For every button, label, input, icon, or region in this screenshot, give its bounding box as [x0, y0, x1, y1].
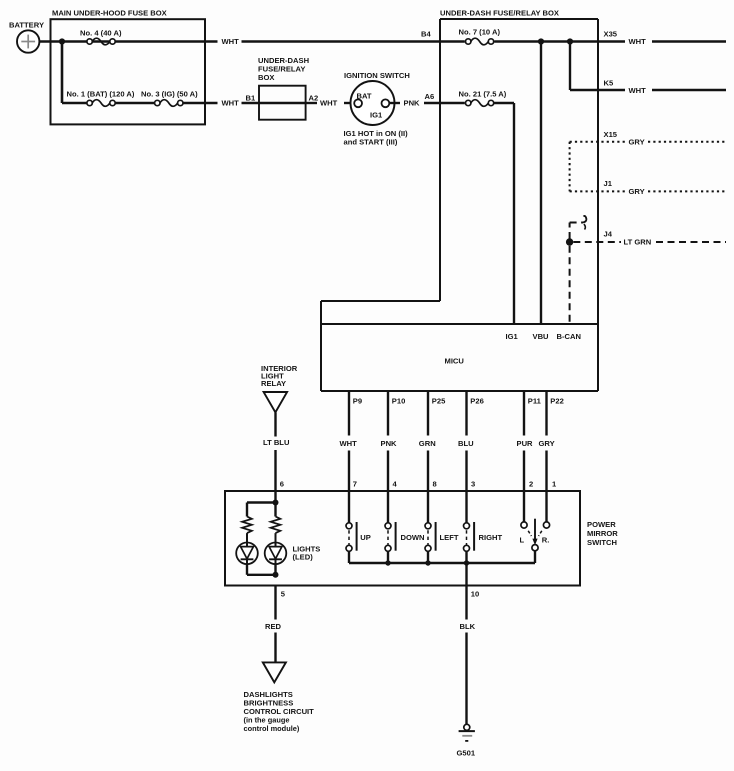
svg-text:LT GRN: LT GRN [624, 238, 652, 247]
label GRY (J1) [629, 187, 645, 196]
pin 4 [393, 479, 398, 488]
svg-text:P25: P25 [432, 396, 446, 405]
svg-text:P9: P9 [353, 396, 362, 405]
wire: MICU P22 to switch pin 1, GRY [545, 391, 547, 491]
connector B1 [246, 93, 256, 102]
wire: B-CAN dashed to MICU [569, 246, 571, 324]
node: bus junction (DOWN) [385, 560, 390, 565]
label IG1 (MICU pin) [506, 332, 519, 341]
node: bus junction (pin 10) [464, 560, 469, 565]
connector A2 [309, 93, 319, 102]
wire: switch common bus [349, 562, 535, 564]
wire: MICU P11 to switch pin 2, PUR [523, 391, 525, 491]
node: pin 6 junction [273, 500, 279, 506]
svg-text:LT BLU: LT BLU [263, 438, 290, 447]
connector X15 [604, 130, 618, 139]
label No. 21 (7.5 A) [459, 89, 507, 98]
label WHT (P9) [340, 439, 358, 448]
svg-text:G501: G501 [457, 749, 476, 758]
MICU box [321, 324, 598, 365]
label LT BLU [263, 438, 290, 447]
node: battery junction [59, 38, 65, 44]
svg-text:P10: P10 [392, 396, 406, 405]
fuse No.3 [155, 100, 183, 107]
svg-text:7: 7 [353, 479, 357, 488]
label P9 [353, 396, 362, 405]
wire: relay to switch pin 6, LT BLU [274, 412, 276, 502]
svg-text:GRY: GRY [629, 137, 645, 146]
wire: fuse 21 to MICU IG1 [494, 103, 514, 324]
svg-text:No. 3 (IG) (50 A): No. 3 (IG) (50 A) [141, 90, 198, 99]
dashlights brightness control (off-page triangle) [263, 662, 286, 682]
svg-text:MIRROR: MIRROR [587, 529, 618, 538]
svg-text:IG1: IG1 [506, 332, 519, 341]
wire: battery to top row, WHT hot at all times [39, 40, 726, 42]
svg-text:SWITCH: SWITCH [587, 538, 617, 547]
pin 10 [471, 590, 479, 599]
svg-text:and START (III): and START (III) [344, 138, 398, 147]
label RED [265, 622, 282, 631]
note IG1 HOT [344, 129, 409, 147]
svg-text:K5: K5 [604, 79, 614, 88]
svg-text:RIGHT: RIGHT [479, 533, 503, 542]
label VBU [533, 332, 550, 341]
svg-text:No. 4 (40 A): No. 4 (40 A) [80, 28, 122, 37]
resistor (left dimmer) [242, 517, 252, 534]
svg-text:UNDER-DASH FUSE/RELAY BOX: UNDER-DASH FUSE/RELAY BOX [440, 8, 559, 17]
label P22 [550, 396, 564, 405]
svg-text:(LED): (LED) [293, 553, 314, 562]
pin 6 [280, 479, 284, 488]
label P11 [528, 396, 542, 405]
label P25 [432, 396, 446, 405]
node: K5 junction [567, 38, 573, 44]
switch DOWN [385, 491, 425, 563]
wire: junction down to No.1 fuse row [61, 42, 64, 104]
wire: LEDs to pin 5 [247, 564, 276, 575]
svg-text:WHT: WHT [340, 439, 358, 448]
wire: J1 GRY (dotted) [570, 190, 726, 192]
wire: ignition IG1 out, PNK [389, 102, 465, 104]
label WHT (before ignition switch) [320, 99, 338, 108]
svg-text:RED: RED [265, 622, 282, 631]
under-dash fuse/relay box (pass-through) [258, 56, 309, 120]
svg-text:WHT: WHT [320, 99, 338, 108]
pin 8 [433, 479, 437, 488]
svg-text:MICU: MICU [445, 356, 465, 365]
label No. 4 (40 A) [80, 28, 122, 37]
wire: MICU P9 to switch pin 7, WHT [348, 391, 350, 491]
svg-text:WHT: WHT [222, 99, 240, 108]
fuse No.1 [87, 100, 115, 107]
switch L/R selector [520, 491, 550, 563]
svg-text:P22: P22 [550, 396, 564, 405]
interior light relay (off-page triangle) [261, 364, 298, 412]
wire: J4 stub with pigtail [570, 216, 587, 239]
svg-text:No. 21 (7.5 A): No. 21 (7.5 A) [459, 89, 507, 98]
pin 3 [471, 479, 475, 488]
note: dashlights brightness control circuit [244, 690, 315, 733]
wire: K5 branch WHT [570, 42, 726, 91]
label LIGHTS (LED) [293, 545, 321, 562]
fuse No.7 [466, 38, 494, 45]
svg-text:POWER: POWER [587, 520, 616, 529]
fuse No.4 [87, 38, 115, 45]
svg-text:P11: P11 [528, 396, 542, 405]
LED (right light) [265, 533, 287, 564]
label GRY (P22) [539, 439, 555, 448]
svg-text:X35: X35 [604, 29, 618, 38]
label GRN (P25) [419, 439, 436, 448]
svg-text:10: 10 [471, 590, 479, 599]
svg-text:3: 3 [471, 479, 475, 488]
battery [9, 20, 44, 52]
wire: X15 GRY (dotted) [570, 142, 726, 192]
label GRY (X15) [629, 137, 645, 146]
label LT GRN [624, 238, 652, 247]
svg-text:PNK: PNK [381, 439, 398, 448]
switch UP [346, 491, 371, 563]
label PNK [404, 99, 421, 108]
wire: pin 10 BLK to ground [465, 563, 467, 724]
svg-text:X15: X15 [604, 130, 618, 139]
label PNK (P10) [381, 439, 398, 448]
svg-text:B-CAN: B-CAN [557, 332, 581, 341]
svg-text:B1: B1 [246, 93, 256, 102]
pin 7 [353, 479, 357, 488]
fuse No.21 [466, 100, 494, 107]
label WHT (K5 out) [629, 86, 647, 95]
wire: pin 5 RED [274, 586, 276, 663]
node: LED bottom junction [273, 572, 279, 578]
svg-text:DOWN: DOWN [401, 533, 425, 542]
LED (left light) [236, 533, 258, 564]
label BLK [460, 622, 476, 631]
svg-text:RELAY: RELAY [261, 379, 286, 388]
label BLU (P26) [458, 439, 474, 448]
pin 5 [281, 590, 286, 599]
svg-text:VBU: VBU [533, 332, 550, 341]
svg-text:LEFT: LEFT [440, 533, 459, 542]
connector A6 [425, 92, 435, 101]
svg-text:WHT: WHT [629, 86, 647, 95]
pin 1 [552, 479, 557, 488]
svg-text:BOX: BOX [258, 73, 274, 82]
node: J4 junction [566, 238, 573, 245]
svg-text:GRY: GRY [539, 439, 555, 448]
svg-text:BAT: BAT [357, 91, 372, 100]
connector X35 [604, 29, 618, 38]
power mirror switch box [225, 491, 618, 586]
label WHT (X35 out) [629, 37, 647, 46]
label No. 3 (IG) (50 A) [141, 90, 198, 99]
wire: MICU P25 to switch pin 8, GRN [427, 391, 429, 491]
pin 2 [529, 479, 533, 488]
svg-text:A2: A2 [309, 93, 319, 102]
switch LEFT [425, 491, 459, 563]
svg-text:P26: P26 [470, 396, 484, 405]
wire: branch to resistors [247, 503, 276, 517]
label WHT (top wire, left) [222, 37, 240, 46]
svg-text:BLK: BLK [460, 622, 476, 631]
svg-text:No. 7 (10 A): No. 7 (10 A) [459, 27, 501, 36]
node: bus junction (LEFT) [425, 560, 430, 565]
wire: VBU to MICU [540, 42, 542, 325]
ignition switch [344, 71, 410, 125]
node: X35/VBU junction [538, 38, 544, 44]
svg-text:WHT: WHT [222, 37, 240, 46]
wire: MICU P10 to switch pin 4, PNK [387, 391, 389, 491]
label No. 7 (10 A) [459, 27, 501, 36]
svg-text:UP: UP [360, 533, 371, 542]
svg-text:A6: A6 [425, 92, 435, 101]
connector K5 [604, 79, 614, 88]
svg-text:IGNITION SWITCH: IGNITION SWITCH [344, 71, 410, 80]
svg-text:MAIN UNDER-HOOD FUSE BOX: MAIN UNDER-HOOD FUSE BOX [52, 9, 167, 18]
svg-text:GRY: GRY [629, 187, 645, 196]
under-dash fuse/relay box outline [321, 8, 598, 391]
main under-hood fuse box [51, 9, 206, 125]
svg-text:GRN: GRN [419, 439, 436, 448]
svg-text:PUR: PUR [517, 439, 534, 448]
label No. 1 (BAT) (120 A) [67, 90, 135, 99]
svg-text:R.: R. [542, 535, 550, 544]
label P26 [470, 396, 484, 405]
svg-text:PNK: PNK [404, 99, 421, 108]
svg-text:control module): control module) [244, 724, 300, 733]
svg-text:BATTERY: BATTERY [9, 20, 44, 29]
svg-text:L: L [520, 535, 525, 544]
wire: J4 LT GRN (dashed) [573, 241, 726, 243]
resistor (right dimmer) [271, 517, 281, 534]
switch RIGHT [464, 491, 503, 563]
svg-text:J4: J4 [604, 229, 613, 238]
svg-text:WHT: WHT [629, 37, 647, 46]
connector B4 [421, 29, 431, 38]
wire: lower row WHT through fuses No.1 and No.3 [62, 102, 354, 104]
label B-CAN [557, 332, 581, 341]
ground G501 [457, 724, 476, 757]
wire: MICU P26 to switch pin 3, BLU [465, 391, 467, 491]
svg-text:6: 6 [280, 479, 284, 488]
svg-text:B4: B4 [421, 29, 431, 38]
label P10 [392, 396, 406, 405]
label PUR (P11) [517, 439, 534, 448]
svg-text:8: 8 [433, 479, 437, 488]
svg-text:BLU: BLU [458, 439, 474, 448]
svg-text:No. 1 (BAT) (120 A): No. 1 (BAT) (120 A) [67, 90, 135, 99]
svg-text:IG1: IG1 [370, 111, 383, 120]
svg-text:J1: J1 [604, 179, 613, 188]
connector J1 [604, 179, 613, 188]
connector J4 [604, 229, 613, 238]
svg-text:2: 2 [529, 479, 533, 488]
label WHT (lower row, left) [222, 99, 240, 108]
